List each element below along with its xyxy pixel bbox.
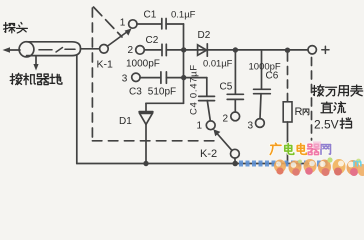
wire C6 top lead [261, 50, 263, 89]
K-2 position 2 contact [231, 112, 240, 121]
watermark cartoon figures [274, 142, 364, 177]
wire pos1 to C1 [137, 23, 161, 25]
wire bus to D1 top [146, 102, 184, 104]
wire C2 to bus [166, 49, 183, 51]
svg-text:C6: C6 [266, 71, 279, 82]
node: D1 anode to ground rail [143, 161, 148, 166]
+ sign [322, 46, 329, 53]
svg-text:1000pF: 1000pF [126, 59, 160, 70]
svg-text:C1: C1 [144, 10, 157, 21]
node: K-2 common to ground rail [232, 161, 238, 167]
label 接机器地 [10, 73, 62, 84]
node: bus / C2 / D2 junction [181, 47, 186, 52]
ganged switch linkage dashed horizontal [92, 140, 220, 142]
svg-text:1: 1 [120, 18, 126, 29]
ganged switch linkage dashed vertical [91, 8, 93, 141]
switch K-1 common contact [100, 45, 109, 54]
watermark blue pixel band [239, 161, 328, 167]
svg-text:D2: D2 [198, 30, 211, 41]
svg-text:2: 2 [223, 114, 229, 125]
wire C5 bottom lead to K-2 pos2 [234, 99, 236, 111]
probe tip arrow (left) [3, 47, 21, 52]
resistor R internal [283, 102, 292, 122]
svg-text:K-1: K-1 [97, 59, 114, 71]
K-1 position 3 contact [132, 73, 140, 81]
K-1 position 1 contact [129, 20, 137, 28]
capacitor C4 [199, 96, 215, 100]
svg-text:3: 3 [122, 74, 128, 85]
wire C6 bottom lead to K-2 pos3 [260, 94, 261, 119]
switch K-2 common contact [231, 149, 240, 158]
wire K-2 common to ground rail [234, 158, 236, 163]
wire C4 bottom lead to K-2 pos1 [207, 101, 210, 121]
ganged switch linkage dashed diagonal [94, 7, 123, 37]
svg-text:m: m [353, 158, 363, 170]
wire C1 to bus corner [166, 23, 183, 25]
svg-text:0.01µF: 0.01µF [203, 58, 233, 69]
capacitor C5 [227, 94, 243, 99]
capacitor C1 [162, 19, 166, 29]
label 探头 [4, 22, 28, 32]
K-2 position 3 contact [256, 119, 265, 128]
paper background [0, 0, 364, 176]
+ output terminal [308, 46, 316, 54]
output wire D2 to + terminal [185, 49, 308, 51]
multimeter boundary dashed line [311, 58, 313, 141]
wire probe shield down to ground rail [76, 56, 78, 164]
wire C4 branch horizontal [184, 77, 207, 79]
wire pos3 to C3 [140, 77, 160, 79]
label 接万用表 [312, 85, 362, 96]
ground arrow to chassis [33, 56, 38, 71]
switch K-1 wiper arm with arrow [108, 29, 132, 47]
node: bus / C3 / C4 junction [181, 75, 186, 80]
probe body (cylinder) [19, 42, 80, 57]
diode D1 [139, 103, 153, 163]
K-1 position 2 contact [136, 46, 145, 55]
watermark bubble text 广电电器网 [270, 143, 330, 154]
capacitor C2 [162, 44, 166, 55]
svg-text:D1: D1 [119, 116, 132, 127]
svg-text:C3510pF: C3510pF [129, 87, 176, 98]
wire probe output to K-1 common [81, 48, 100, 50]
svg-text:1: 1 [197, 121, 203, 132]
capacitor C3 [161, 72, 167, 83]
svg-text:K-2: K-2 [200, 148, 217, 160]
svg-text:2: 2 [128, 45, 134, 56]
wire C5 top lead [234, 50, 236, 94]
svg-text:C2: C2 [146, 35, 159, 46]
node: C5 top junction [233, 47, 238, 52]
svg-text:C4 0.47µF: C4 0.47µF [189, 64, 200, 115]
svg-text:C5: C5 [220, 82, 233, 93]
switch K-2 wiper arm with arrow [213, 129, 231, 150]
R internal bottom lead [287, 122, 289, 164]
wire C3 to bus [166, 77, 183, 79]
probe body center dashed line [39, 48, 75, 53]
diode D2 [198, 44, 208, 56]
svg-text:0.1µF: 0.1µF [171, 10, 196, 21]
svg-text:2.5V: 2.5V [314, 118, 339, 132]
capacitor C6 [254, 89, 271, 93]
K-2 position 1 contact [206, 121, 215, 130]
wire pos2 to C2 [144, 49, 161, 51]
vertical bus joining C1 C2 C3 [183, 24, 185, 103]
svg-text:R: R [295, 106, 303, 118]
dashed lead from + wire to R internal [287, 53, 289, 102]
svg-text:3: 3 [248, 121, 254, 132]
wire C4 top lead [206, 78, 208, 96]
label 直流 [321, 102, 346, 113]
ground rail (bottom wire) [77, 163, 309, 165]
node: R internal top junction [285, 48, 290, 53]
